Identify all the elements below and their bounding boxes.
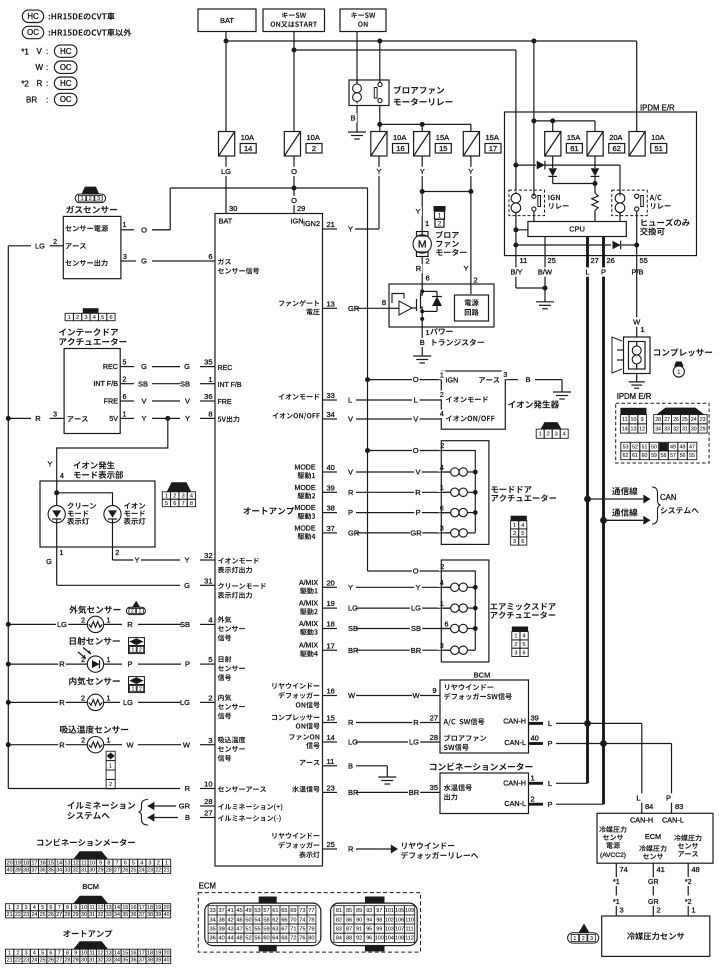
svg-text::: :: [46, 63, 48, 72]
svg-text:11: 11: [327, 757, 335, 766]
svg-text:14: 14: [114, 951, 120, 957]
svg-text:57: 57: [263, 908, 269, 914]
wire fuse17 out Y to power supply circuit: [470, 156, 472, 294]
svg-text:8: 8: [66, 905, 69, 911]
svg-text:LG: LG: [411, 604, 421, 613]
svg-text:A/MIX: A/MIX: [299, 580, 318, 587]
wire fuse16 out Y down: [378, 156, 380, 229]
svg-text:4: 4: [93, 315, 96, 321]
svg-text:94: 94: [366, 917, 372, 923]
svg-text:7: 7: [58, 951, 61, 957]
connector mode door actuator 1-6: [511, 516, 527, 521]
svg-text:21: 21: [164, 868, 170, 874]
relay blower fan motor relay: [349, 80, 389, 106]
wire meter CAN-H to L trunk end: [556, 782, 588, 784]
legend HC text: [49, 15, 51, 20]
svg-text:17: 17: [31, 861, 37, 867]
svg-text:R: R: [416, 264, 422, 273]
svg-text:13: 13: [65, 861, 71, 867]
junction blower fuse bridge right: [468, 189, 473, 194]
wire ECM pin 48 to pressure sensor pin 1: [687, 863, 689, 877]
relay IGN relay: [509, 190, 545, 216]
motor blower fan motor: [417, 232, 429, 237]
svg-text:5: 5: [132, 861, 135, 867]
svg-text:Y: Y: [141, 414, 146, 423]
svg-text:48: 48: [236, 936, 242, 942]
svg-text:A/MIX: A/MIX: [299, 621, 318, 628]
svg-text:2: 2: [53, 239, 57, 246]
label combination meter: [430, 764, 436, 770]
label L P on CAN trunk: [584, 267, 592, 276]
ground compressor: [636, 377, 638, 382]
svg-text:SB: SB: [411, 624, 421, 633]
svg-text:38: 38: [147, 912, 153, 918]
fuse 10A 51: [629, 132, 645, 157]
svg-text:10: 10: [89, 861, 95, 867]
connector autoamp grid: [73, 941, 108, 949]
label mode door actuator: [491, 486, 498, 492]
pin 3 intake earth R: [50, 417, 65, 419]
svg-text:29: 29: [73, 958, 79, 964]
pin 39 BCM CAN-H: [529, 722, 544, 725]
junction fuse61 feed: [550, 118, 555, 123]
svg-text:5: 5: [101, 315, 104, 321]
svg-text:69: 69: [290, 908, 296, 914]
svg-text:89: 89: [356, 908, 362, 914]
svg-text:61: 61: [272, 908, 278, 914]
svg-text:INT F/B: INT F/B: [93, 379, 118, 388]
svg-text:1: 1: [109, 763, 112, 769]
svg-text:R: R: [348, 488, 354, 497]
svg-text:50: 50: [651, 445, 657, 451]
power source box key SW ON or START: [263, 9, 325, 32]
power source box BAT: [198, 9, 256, 32]
svg-text:6: 6: [49, 905, 52, 911]
wire IGN relay contact to CPU: [533, 211, 535, 222]
wire fuse62 feed: [594, 121, 596, 132]
label power transistor: [430, 328, 437, 335]
pin 23 water temp signal: [292, 786, 299, 793]
svg-text:OC: OC: [27, 28, 39, 37]
svg-text:3: 3: [149, 861, 152, 867]
svg-text:V: V: [415, 468, 420, 477]
pin 3 ion generator earth B: [505, 379, 518, 381]
wire A/C relay coil feed: [619, 165, 621, 196]
pin 5 sunload sensor signal: [219, 656, 224, 662]
svg-text:6: 6: [173, 501, 176, 507]
svg-text:104: 104: [385, 936, 394, 942]
label outside air sensor: [69, 606, 77, 614]
svg-text:27: 27: [114, 868, 120, 874]
svg-text:2: 2: [426, 257, 430, 266]
pin 2 meter CAN-L: [529, 803, 544, 806]
svg-text:Y: Y: [415, 583, 420, 592]
junction CAN L comm line: [584, 496, 591, 503]
svg-text:3: 3: [208, 736, 212, 745]
svg-text:CAN-L: CAN-L: [662, 815, 684, 824]
svg-text:GR: GR: [179, 802, 191, 811]
svg-text:3: 3: [503, 372, 507, 379]
svg-text:CAN-L: CAN-L: [504, 738, 526, 747]
svg-text:IGN2: IGN2: [303, 219, 320, 228]
fuse 10A 16: [371, 132, 387, 157]
svg-text:O: O: [413, 375, 419, 384]
svg-text:18: 18: [147, 905, 153, 911]
power source box key SW ON: [340, 9, 386, 32]
svg-text:HC: HC: [60, 79, 72, 88]
svg-text:3: 3: [25, 905, 28, 911]
connector blower fan motor 1 2: [434, 206, 446, 211]
connector ECM left grid tabs: [259, 897, 277, 904]
svg-text:25: 25: [40, 912, 46, 918]
svg-text:IPDM E/R: IPDM E/R: [640, 104, 675, 113]
svg-text:23: 23: [327, 784, 335, 793]
svg-text:35: 35: [430, 783, 438, 792]
connector refrigerant pressure sensor 1 2 3: [579, 924, 590, 933]
svg-text:6: 6: [49, 951, 52, 957]
connector IPDM left grid: [620, 408, 646, 415]
svg-text:50: 50: [245, 917, 251, 923]
wire CAN L trunk: [586, 256, 589, 784]
svg-text:35: 35: [204, 358, 212, 367]
label comm line 2: [612, 509, 620, 517]
svg-text:82: 82: [336, 917, 342, 923]
svg-text:112: 112: [405, 936, 414, 942]
svg-text:100: 100: [375, 936, 384, 942]
svg-text:37: 37: [139, 912, 145, 918]
svg-text:63: 63: [272, 927, 278, 933]
pin 27 illumination minus: [218, 815, 224, 821]
relay A/C relay: [612, 190, 648, 216]
box CPU: [528, 222, 626, 237]
svg-text:LG: LG: [409, 738, 419, 747]
label air mix door actuator: [490, 604, 497, 610]
pin 40 BCM CAN-L: [529, 742, 544, 745]
thermistor outside air sensor: [87, 616, 103, 632]
svg-text:55: 55: [254, 927, 260, 933]
wire fuse bridge y191: [422, 191, 471, 193]
connector airmix actuator 1-6: [512, 627, 528, 632]
svg-text:A/MIX: A/MIX: [299, 601, 318, 608]
svg-text:Y: Y: [468, 167, 473, 176]
wire O to mode actuator pin2: [368, 450, 442, 452]
wire fuse14 out LG to autoamp BAT pin 30: [225, 156, 227, 214]
svg-text:7: 7: [182, 501, 185, 507]
arrow illumination plus: [148, 802, 155, 811]
svg-text:14: 14: [622, 426, 628, 432]
svg-text:V: V: [413, 415, 418, 424]
svg-text:1: 1: [440, 372, 444, 379]
svg-text:1: 1: [426, 328, 430, 337]
svg-text:10A: 10A: [651, 133, 664, 142]
svg-text:6: 6: [208, 252, 212, 261]
coil mode drive1: [441, 471, 450, 473]
svg-text:31: 31: [81, 868, 87, 874]
wire pin19 to airmix coil 1: [356, 607, 451, 609]
svg-text:30: 30: [81, 958, 87, 964]
pin 4 ion on/off: [438, 410, 445, 419]
svg-text:29: 29: [98, 868, 104, 874]
svg-text:2: 2: [131, 609, 134, 615]
svg-text:5: 5: [41, 905, 44, 911]
transistor power MOSFET: [412, 307, 417, 309]
svg-text:3: 3: [620, 906, 624, 915]
wire CAN P to ECM pin 83: [671, 744, 673, 814]
svg-text:2: 2: [312, 144, 316, 153]
wire O to ion generator pin1: [368, 379, 442, 381]
svg-text:49: 49: [245, 908, 251, 914]
svg-text:64: 64: [272, 936, 278, 942]
svg-text:53: 53: [254, 908, 260, 914]
label compressor: [654, 349, 660, 355]
pin 2 ion mode: [438, 391, 445, 400]
svg-text:36: 36: [40, 868, 46, 874]
svg-text:26: 26: [48, 912, 54, 918]
svg-text:W: W: [183, 740, 191, 749]
pin 2 in-vehicle sensor signal: [218, 694, 224, 701]
svg-text:23: 23: [23, 958, 29, 964]
svg-text:15A: 15A: [567, 133, 580, 142]
svg-text:R: R: [348, 718, 354, 727]
box intake door actuator: [64, 349, 120, 434]
wire key1 drop to fuse 2: [293, 32, 295, 132]
svg-text:57: 57: [670, 453, 676, 459]
svg-text:4: 4: [521, 523, 524, 529]
wire blower relay output to fuse bus: [379, 106, 381, 125]
svg-text:16: 16: [396, 144, 404, 153]
wire fuse15 out Y to blower motor: [421, 156, 423, 235]
svg-text:16: 16: [40, 861, 46, 867]
svg-text:74: 74: [620, 865, 628, 874]
connector ECM left shell: [205, 903, 321, 946]
svg-text:Y: Y: [348, 225, 353, 234]
label sunload sensor: [70, 637, 76, 645]
brace illumination: [139, 800, 149, 826]
pin 34 ion ON/OFF: [273, 413, 279, 419]
svg-text:36: 36: [209, 936, 215, 942]
svg-text:32: 32: [673, 426, 679, 432]
svg-text:2: 2: [474, 276, 478, 285]
wire key line into IPDM: [515, 50, 517, 190]
svg-text:51: 51: [655, 144, 663, 153]
connector BCM grid: [73, 896, 108, 904]
box BCM: [440, 680, 529, 753]
svg-text:BCM: BCM: [82, 882, 99, 891]
svg-text:10: 10: [81, 951, 87, 957]
wire pin18 to airmix coil 6: [356, 628, 451, 630]
svg-text:GR: GR: [648, 879, 659, 886]
wire comm line 1 to CAN system: [588, 498, 644, 500]
svg-text:62: 62: [613, 144, 621, 153]
svg-text:101: 101: [385, 908, 394, 914]
wire in-vehicle sensor to autoamp pin2: [138, 701, 181, 703]
svg-text:15A: 15A: [486, 133, 499, 142]
wire BCM CAN-L to P trunk and ECM: [556, 743, 672, 745]
svg-text:V: V: [37, 47, 43, 56]
wire CAN P pin 26 drop: [602, 237, 605, 256]
svg-text:CAN: CAN: [660, 493, 676, 502]
svg-text:84: 84: [336, 936, 342, 942]
wire ECM pin 41 to pressure sensor pin 2: [652, 863, 654, 877]
svg-text:45: 45: [236, 908, 242, 914]
svg-text:61: 61: [570, 144, 578, 153]
box mode door actuator: [441, 441, 489, 545]
wire MOSFET drain from pin6: [421, 284, 423, 291]
svg-text:P/B: P/B: [631, 268, 643, 277]
svg-text:W: W: [126, 740, 134, 749]
wire A/C relay contact down to pin 55: [636, 211, 638, 256]
junction BAT drop: [224, 39, 229, 44]
svg-text:34: 34: [209, 917, 215, 923]
legend OC oval: [22, 26, 43, 38]
svg-text:3: 3: [182, 494, 185, 500]
svg-text:(AVCC2): (AVCC2): [600, 852, 626, 859]
svg-text:27: 27: [56, 912, 62, 918]
svg-text:39: 39: [531, 714, 539, 723]
wire LED feed internal: [56, 481, 58, 506]
svg-text:*1: *1: [613, 879, 620, 886]
svg-text:3: 3: [97, 196, 100, 202]
svg-text:9: 9: [74, 951, 77, 957]
svg-text:OC: OC: [60, 95, 72, 104]
wire fuse61 feed: [552, 121, 554, 132]
fuse 15A 17: [463, 132, 479, 157]
wire fuse17 feed: [470, 124, 472, 131]
wire O branch left down to gas sensor: [169, 188, 171, 230]
brace CAN system: [652, 487, 661, 524]
svg-text:W: W: [412, 691, 420, 700]
pin 3 intake temp sensor signal: [218, 737, 224, 743]
svg-text:85: 85: [346, 908, 352, 914]
diode key backfeed right: [516, 164, 536, 166]
svg-text:2: 2: [109, 782, 112, 788]
svg-text:17: 17: [489, 144, 497, 153]
svg-text:15: 15: [439, 144, 447, 153]
svg-text:19: 19: [155, 951, 161, 957]
svg-text:11: 11: [520, 256, 528, 265]
svg-text:2: 2: [139, 648, 142, 654]
svg-text:67: 67: [281, 927, 287, 933]
svg-text:G: G: [184, 362, 190, 371]
op-amp driver triangle: [389, 307, 399, 309]
svg-text:29: 29: [73, 912, 79, 918]
label IGN relay: [548, 195, 549, 200]
svg-text:12: 12: [73, 861, 79, 867]
svg-text:20: 20: [7, 861, 13, 867]
label comm line 1: [612, 487, 620, 495]
junction O to ion generator: [365, 377, 370, 382]
wire BAT line into IPDM: [533, 41, 535, 196]
wire fuse61 out with diode down: [552, 156, 554, 168]
svg-text:92: 92: [356, 936, 362, 942]
svg-text:*2: *2: [685, 879, 692, 886]
coil airmix drive3: [441, 628, 450, 630]
connector ECM left grid: [208, 906, 217, 915]
svg-text:8: 8: [190, 501, 193, 507]
resistor IPDM: [594, 184, 596, 194]
connector ECM right grid tabs: [365, 897, 385, 904]
box refrigerant pressure sensor: [602, 916, 710, 956]
label intake temp sensor: [60, 726, 68, 734]
coil mode drive3: [441, 512, 450, 514]
compressor clutch symbol: [612, 337, 622, 373]
svg-text:6: 6: [426, 274, 430, 283]
svg-text:CPU: CPU: [569, 225, 585, 234]
svg-text:2: 2: [115, 550, 119, 557]
svg-text:2: 2: [173, 494, 176, 500]
wire B/W to ground: [544, 256, 546, 288]
svg-text:30: 30: [89, 868, 95, 874]
svg-text:L: L: [585, 268, 589, 277]
junction key diode branch: [513, 163, 518, 168]
label illumination system: [67, 802, 74, 809]
svg-text:B/W: B/W: [538, 268, 553, 277]
wire O branch y188: [170, 187, 367, 189]
wire fuse2 out O to autoamp IGN pin 29: [293, 156, 295, 214]
svg-text:47: 47: [236, 927, 242, 933]
svg-text:4: 4: [140, 861, 143, 867]
svg-text:33: 33: [664, 426, 670, 432]
label Y pin2 at power supply circuit: [462, 264, 470, 273]
thermistor in-vehicle sensor: [87, 694, 103, 710]
svg-text:2: 2: [582, 936, 585, 942]
svg-text::: :: [46, 47, 48, 56]
wire pin20 to airmix coil 4: [356, 586, 451, 588]
svg-text:74: 74: [299, 917, 305, 923]
svg-text:3: 3: [555, 432, 558, 438]
svg-text:1: 1: [123, 222, 127, 229]
ground IPDM: [544, 288, 546, 296]
box ion generator: [441, 371, 505, 429]
wire LED2 cathode: [112, 519, 114, 547]
svg-text:14: 14: [114, 905, 120, 911]
svg-text:V: V: [348, 468, 353, 477]
label fuses only replaceable: [641, 219, 647, 226]
svg-text:9: 9: [641, 417, 644, 423]
wire LED2 pin2 Y to autoamp pin32: [112, 547, 114, 560]
svg-text:87: 87: [346, 927, 352, 933]
svg-text:2: 2: [81, 618, 85, 625]
pin 14 fan ON signal: [289, 734, 294, 739]
wire IGN2 pin21 row: [355, 228, 379, 230]
svg-text:93: 93: [366, 908, 372, 914]
svg-text:R: R: [59, 740, 65, 749]
svg-text:56: 56: [680, 453, 686, 459]
svg-text:32: 32: [98, 958, 104, 964]
wire blower motor to power transistor, label R pin2 pin6: [421, 257, 423, 285]
svg-text:2: 2: [208, 694, 212, 703]
wire meter CAN-L to P trunk end: [556, 803, 604, 805]
svg-text:P: P: [185, 660, 190, 669]
svg-text:6: 6: [521, 539, 524, 545]
svg-text:28: 28: [430, 733, 438, 742]
svg-text:10: 10: [81, 905, 87, 911]
svg-text:37: 37: [327, 524, 335, 533]
svg-text:23: 23: [23, 912, 29, 918]
svg-text:84: 84: [645, 802, 653, 811]
LED clean mode indicator: [48, 506, 65, 523]
svg-text:35: 35: [209, 927, 215, 933]
svg-text:3: 3: [514, 650, 517, 656]
svg-text:3: 3: [590, 936, 593, 942]
svg-text:31: 31: [89, 912, 95, 918]
svg-text:77: 77: [308, 908, 314, 914]
svg-text:R: R: [35, 414, 41, 423]
svg-text:Y: Y: [376, 167, 381, 176]
svg-text:2: 2: [123, 377, 127, 384]
svg-text:21: 21: [7, 958, 13, 964]
wire CAN P trunk: [602, 256, 605, 805]
